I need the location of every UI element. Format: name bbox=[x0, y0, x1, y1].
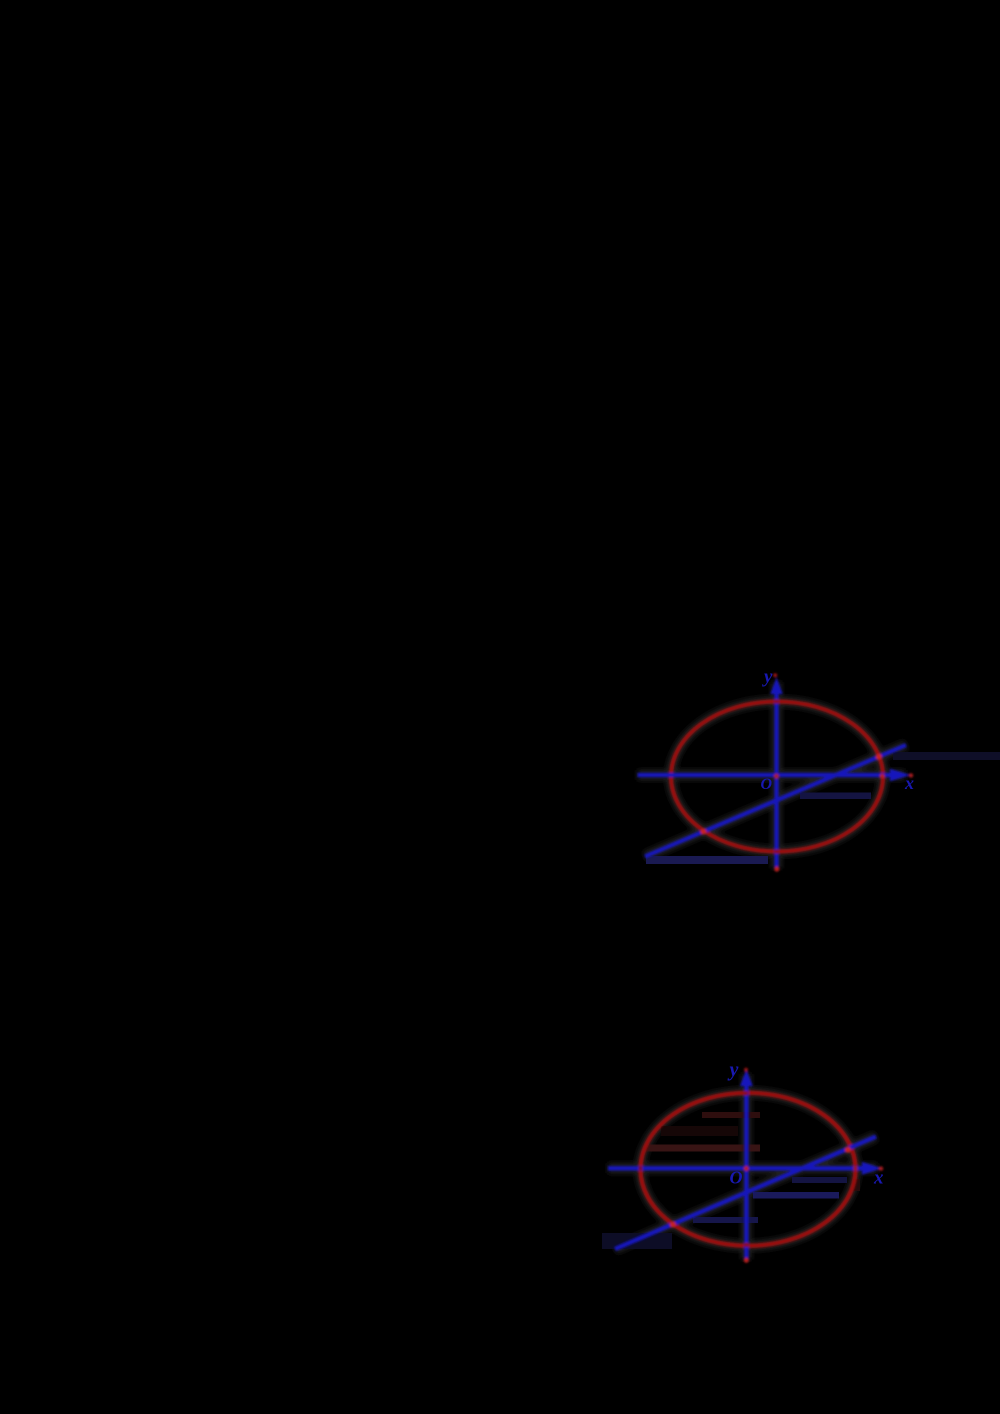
ghost band n3 bbox=[693, 1217, 758, 1223]
jpeg halo fig2 bbox=[608, 1074, 877, 1260]
x-axis arrowhead F2 bbox=[862, 1162, 882, 1175]
point: bottom end of y-axis F1 bbox=[774, 866, 779, 871]
ghost band r3 bbox=[661, 1126, 738, 1136]
jpeg halo fig1 bbox=[638, 682, 907, 869]
secant line F1 bbox=[645, 745, 906, 857]
point: secant-ellipse upper right F1 bbox=[876, 754, 882, 760]
y-axis F1 bbox=[774, 694, 778, 869]
x-axis F2 bbox=[608, 1166, 863, 1170]
ghost band g3 bbox=[893, 752, 1000, 760]
point: above y arrow F1 bbox=[773, 673, 777, 677]
point: near x arrow tip F1 bbox=[909, 773, 913, 777]
y-axis F2 bbox=[744, 1086, 748, 1260]
svg-text:y: y bbox=[728, 1059, 739, 1081]
ellipse E1 bbox=[671, 702, 883, 852]
x-axis arrowhead F1 bbox=[890, 769, 911, 781]
ghost band n4 bbox=[602, 1233, 672, 1249]
y-axis arrowhead F1 bbox=[770, 678, 782, 695]
ghost band n1 bbox=[792, 1177, 847, 1183]
svg-text:O: O bbox=[730, 1168, 743, 1188]
point: top vertex F1 bbox=[774, 699, 778, 703]
ghost band right of curve bbox=[853, 1179, 860, 1191]
point: secant-ellipse lower left F2 bbox=[670, 1222, 676, 1228]
point: origin O F1 bbox=[774, 774, 779, 779]
point: left vertex F2 bbox=[639, 1166, 643, 1170]
ellipse E2 bbox=[641, 1093, 856, 1246]
figure 2 : ellipse with axes and secant line bbox=[602, 1059, 884, 1263]
ghost band g2 bbox=[800, 793, 871, 800]
x-axis F1 bbox=[638, 773, 893, 777]
point: bottom vertex F2 bbox=[744, 1243, 748, 1247]
point: right vertex F2 bbox=[853, 1166, 857, 1170]
point: origin O F2 bbox=[744, 1166, 749, 1171]
figure 1 : ellipse with axes and secant line bbox=[638, 667, 1000, 872]
svg-text:O: O bbox=[761, 776, 773, 793]
ghost band g1 bbox=[646, 856, 768, 864]
ghost band r1 bbox=[702, 1112, 760, 1118]
svg-text:y: y bbox=[762, 667, 773, 688]
ghost band r2 bbox=[644, 1145, 760, 1152]
point: bottom end of y-axis F2 bbox=[744, 1258, 749, 1263]
y-axis arrowhead F2 bbox=[740, 1070, 753, 1087]
ghost band n2 bbox=[753, 1192, 839, 1199]
svg-text:x: x bbox=[873, 1168, 884, 1189]
point: y arrow tip F2 bbox=[744, 1068, 748, 1072]
point: bottom vertex F1 bbox=[775, 849, 779, 853]
point: secant-ellipse upper right F2 bbox=[845, 1147, 851, 1153]
point: right vertex F1 bbox=[880, 774, 885, 779]
point: top vertex F2 bbox=[744, 1091, 748, 1095]
point: secant-ellipse lower left F1 bbox=[701, 829, 707, 835]
point: near x arrow tip F2 bbox=[879, 1166, 883, 1170]
secant line F2 bbox=[615, 1137, 876, 1250]
svg-text:x: x bbox=[904, 773, 914, 793]
